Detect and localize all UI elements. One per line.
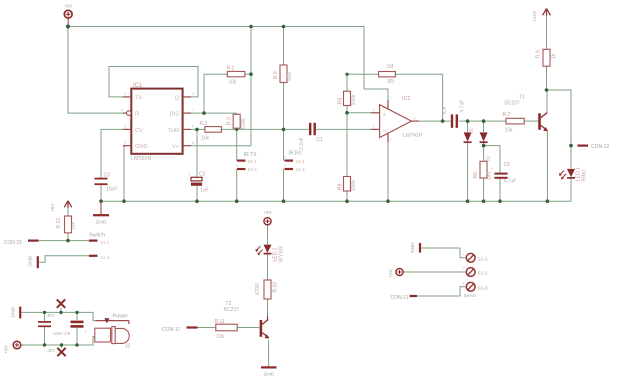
svg-text:2: 2 [124,92,126,96]
svg-text:THR: THR [168,128,180,134]
svg-text:4: 4 [121,108,123,112]
svg-text:+12V: +12V [532,10,538,22]
svg-text:1M: 1M [387,64,394,70]
svg-text:1: 1 [284,156,286,160]
svg-text:IR.TX: IR.TX [244,152,257,158]
svg-text:+5V: +5V [4,344,9,353]
svg-text:10-2: 10-2 [248,167,258,172]
svg-text:2: 2 [373,108,375,112]
svg-text:IR.RX: IR.RX [289,151,303,157]
svg-text:BC237: BC237 [505,101,521,107]
svg-text:C4: C4 [442,106,448,113]
svg-text:10nF: 10nF [53,331,63,336]
svg-text:CON 15: CON 15 [4,240,22,246]
svg-text:R.11: R.11 [215,319,225,325]
svg-text:3: 3 [373,125,375,129]
svg-text:4: 4 [390,138,392,142]
svg-text:V+: V+ [172,144,179,150]
svg-text:4.7uF: 4.7uF [504,179,517,185]
svg-text:R.2: R.2 [200,121,208,127]
svg-text:2.2uF: 2.2uF [299,137,305,150]
svg-text:BC237: BC237 [224,307,240,313]
svg-text:100k: 100k [351,180,357,191]
svg-text:R: R [135,112,139,118]
svg-text:11-2: 11-2 [101,255,110,260]
svg-text:10k: 10k [505,128,514,134]
svg-text:2: 2 [236,164,238,168]
svg-text:11-1: 11-1 [101,240,110,245]
svg-text:R8: R8 [473,172,479,179]
svg-text:3: 3 [192,92,194,96]
svg-text:C1: C1 [317,137,324,143]
svg-text:CON-12: CON-12 [591,144,610,150]
svg-text:C2: C2 [199,172,206,178]
svg-text:CV: CV [135,128,143,134]
svg-text:+: + [491,166,494,171]
svg-text:Q: Q [175,95,180,101]
svg-text:IC1: IC1 [133,83,143,89]
svg-text:2: 2 [284,164,286,168]
svg-text:1k5: 1k5 [487,172,493,180]
svg-text:GND: GND [135,144,147,150]
svg-text:S1-1: S1-1 [478,256,488,262]
svg-text:1: 1 [236,156,238,160]
svg-text:45R: 45R [287,71,293,81]
svg-text:1k: 1k [551,53,557,59]
svg-text:7: 7 [390,96,392,100]
svg-text:2: 2 [463,267,465,271]
svg-text:Power: Power [113,313,128,319]
svg-text:GND: GND [264,371,275,377]
svg-text:14-2: 14-2 [296,167,306,172]
svg-text:10k: 10k [229,80,238,86]
svg-text:R9: R9 [338,183,344,190]
svg-text:+: + [188,172,191,177]
svg-text:6: 6 [414,117,416,121]
svg-text:Servo: Servo [464,293,477,299]
svg-text:100k: 100k [351,94,357,105]
svg-text:R.9: R.9 [536,50,542,58]
svg-text:10k: 10k [201,136,210,142]
svg-text:R.12: R.12 [56,218,62,229]
svg-text:10k: 10k [71,221,77,230]
svg-text:JP2: JP2 [48,348,56,353]
svg-text:+5V: +5V [64,4,73,9]
svg-text:IC2: IC2 [402,96,410,102]
svg-text:8: 8 [192,141,194,145]
svg-text:R.1: R.1 [227,66,235,72]
svg-text:CON-11: CON-11 [391,295,409,301]
svg-text:RING: RING [582,169,588,182]
svg-text:GND: GND [11,306,17,317]
svg-text:JP1: JP1 [47,313,55,318]
svg-text:WYSW: WYSW [279,246,285,262]
svg-text:+: + [85,329,88,334]
svg-text:LM555N: LM555N [131,156,151,162]
svg-text:4.7uF: 4.7uF [460,100,466,113]
svg-text:S1-2: S1-2 [478,271,488,277]
svg-text:C3: C3 [104,173,111,179]
svg-text:Switch: Switch [89,233,105,239]
svg-text:GND: GND [410,242,416,253]
svg-text:1uF: 1uF [200,188,209,194]
svg-text:1: 1 [463,253,465,257]
svg-text:DIS: DIS [170,112,180,118]
svg-text:6: 6 [192,125,194,129]
svg-text:+5V: +5V [50,203,56,212]
svg-text:T1: T1 [519,95,525,101]
svg-text:C6: C6 [65,331,71,336]
svg-text:5: 5 [124,125,126,129]
svg-text:R.7: R.7 [503,112,511,118]
svg-text:−: − [383,129,387,135]
svg-text:470R: 470R [241,118,247,130]
svg-text:1: 1 [124,141,126,145]
svg-text:470R: 470R [255,283,261,295]
svg-text:10k: 10k [216,334,225,340]
svg-text:R.3: R.3 [227,117,233,125]
svg-text:J2: J2 [125,344,131,350]
svg-text:3: 3 [463,282,465,286]
svg-text:14-1: 14-1 [296,159,306,164]
svg-text:GND: GND [96,220,107,226]
svg-text:LM741P: LM741P [403,133,423,139]
svg-text:D1: D1 [469,127,474,133]
svg-text:D2: D2 [486,155,491,161]
svg-text:GND: GND [28,255,34,266]
svg-text:10-1: 10-1 [248,159,258,164]
svg-text:S1-3: S1-3 [478,285,488,291]
svg-text:R8: R8 [338,97,344,104]
svg-text:R5: R5 [388,79,395,85]
svg-text:+5V: +5V [388,268,393,277]
svg-text:TR: TR [135,95,142,101]
svg-text:+: + [383,113,387,119]
svg-text:R.6: R.6 [273,71,279,79]
svg-text:7: 7 [192,108,194,112]
svg-text:R.10: R.10 [273,282,279,293]
svg-text:C5: C5 [504,162,511,168]
svg-text:+5V: +5V [263,210,272,215]
svg-text:10nF: 10nF [106,187,117,193]
svg-text:CON-17: CON-17 [162,327,181,333]
